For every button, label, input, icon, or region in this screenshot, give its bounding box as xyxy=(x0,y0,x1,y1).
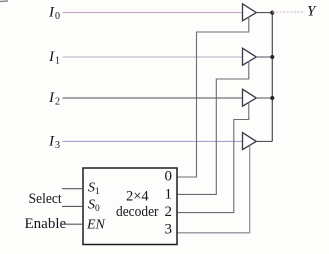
wire I0 xyxy=(63,12,243,14)
svg-text:1: 1 xyxy=(95,187,100,197)
scan artifact top-left corner xyxy=(0,0,8,3)
wire U1 output xyxy=(256,56,272,58)
wire to output Y xyxy=(272,11,305,13)
svg-text:0: 0 xyxy=(165,169,173,185)
wire I2 xyxy=(63,97,243,99)
wire Select to S1 xyxy=(62,188,83,190)
tri-state buffer U2 xyxy=(243,89,257,106)
svg-text:3: 3 xyxy=(55,140,60,151)
wire U3 output xyxy=(256,140,272,142)
svg-text:S: S xyxy=(88,198,95,213)
svg-text:I: I xyxy=(48,133,55,149)
svg-text:2×4: 2×4 xyxy=(126,189,149,205)
svg-text:S: S xyxy=(88,181,95,196)
wire U0 output xyxy=(256,12,272,14)
wire decoder output 2 to U2 enable xyxy=(177,102,249,213)
svg-text:2: 2 xyxy=(55,97,60,108)
wire Enable to EN xyxy=(60,223,83,225)
svg-text:I: I xyxy=(48,5,55,21)
wire I1 xyxy=(63,56,243,58)
svg-text:Select: Select xyxy=(29,191,63,207)
wire U2 output xyxy=(256,97,272,99)
wire decoder output 0 to U0 enable xyxy=(177,17,249,177)
junction node at U2 output xyxy=(270,96,274,100)
svg-text:1: 1 xyxy=(165,187,173,203)
junction node at U1 output xyxy=(270,55,274,59)
svg-text:2: 2 xyxy=(165,204,173,220)
wire decoder output 3 to U3 enable xyxy=(177,146,250,233)
tri-state buffer U1 xyxy=(243,48,257,65)
junction node at U0 output xyxy=(270,11,274,15)
svg-text:EN: EN xyxy=(86,217,106,232)
wire Select to S0 xyxy=(62,205,83,207)
svg-text:1: 1 xyxy=(55,56,60,67)
svg-text:0: 0 xyxy=(95,204,100,214)
tri-state buffer U0 xyxy=(243,4,257,21)
svg-text:I: I xyxy=(48,90,55,106)
tri-state buffer U3 xyxy=(243,133,257,150)
svg-text:0: 0 xyxy=(55,11,60,22)
wire I3 xyxy=(63,140,243,142)
wire decoder output 1 to U1 enable xyxy=(177,61,249,194)
svg-text:Y: Y xyxy=(307,4,317,20)
svg-text:3: 3 xyxy=(165,221,173,237)
svg-text:I: I xyxy=(48,49,55,65)
svg-text:decoder: decoder xyxy=(116,204,159,220)
wire output bus vertical xyxy=(271,13,273,142)
decoder box U4 xyxy=(83,168,177,245)
